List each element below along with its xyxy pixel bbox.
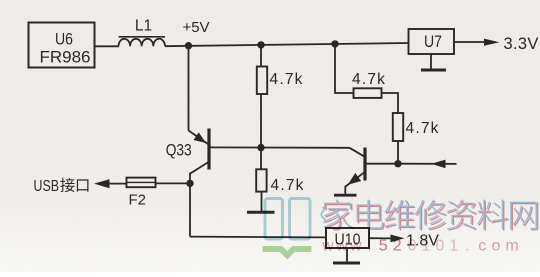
wire U10 output xyxy=(369,237,391,239)
svg-text:4.7k: 4.7k xyxy=(270,71,304,88)
junction dot base node xyxy=(257,144,264,151)
svg-text:Q33: Q33 xyxy=(166,142,192,160)
wire R1 to base node xyxy=(260,94,262,148)
ground U10 xyxy=(333,248,360,263)
wire arrow to F2 xyxy=(108,183,127,185)
wire F2 to node xyxy=(156,182,191,184)
resistor R1 4.7k xyxy=(257,67,267,95)
svg-text:.: . xyxy=(367,238,371,255)
inductor L1 xyxy=(119,37,166,47)
wire U6 to L1 xyxy=(95,45,120,47)
wire Q2 emitter to ground xyxy=(344,186,346,195)
wire Q33 emitter to +5V xyxy=(188,46,190,131)
watermark url www.520101.com xyxy=(321,238,519,255)
svg-text:0: 0 xyxy=(408,238,417,255)
svg-text:1: 1 xyxy=(449,238,458,255)
svg-text:w: w xyxy=(321,238,334,255)
resistor R3 4.7k vertical right xyxy=(393,113,403,141)
wire R4 to ground xyxy=(261,192,263,212)
transistor Q2 xyxy=(345,148,398,187)
watermark text 家电维修资料网 xyxy=(323,199,538,230)
svg-text:m: m xyxy=(505,238,518,255)
junction dot rail/R1 xyxy=(257,41,264,48)
wire from right edge with arrow xyxy=(398,160,457,169)
fuse F2 xyxy=(127,178,156,188)
arrow to 1.8V xyxy=(391,235,405,243)
watermark green ribbon xyxy=(263,249,312,255)
transistor Q33 xyxy=(189,129,210,175)
wire +5V rail xyxy=(165,43,409,46)
label USB接口 xyxy=(34,178,89,195)
wire node to R4 xyxy=(260,148,262,170)
resistor R4 4.7k lower middle xyxy=(256,169,266,191)
wire Q33 base to Q2 base xyxy=(209,146,350,148)
wire R2 to R3 xyxy=(382,93,399,113)
wire bottom rail xyxy=(190,236,327,239)
svg-text:U6: U6 xyxy=(55,30,73,49)
IC U10 xyxy=(326,228,369,249)
node +5V junction xyxy=(185,42,192,49)
wire R3 to collector node xyxy=(397,141,399,164)
svg-text:FR986: FR986 xyxy=(40,48,91,67)
watermark book logo xyxy=(265,199,310,240)
junction dot rail/R2 xyxy=(331,40,338,47)
svg-text:4.7k: 4.7k xyxy=(406,120,440,137)
svg-text:4.7k: 4.7k xyxy=(352,71,386,88)
resistor R2 4.7k horizontal xyxy=(354,88,382,98)
arrow to USB port xyxy=(94,179,110,188)
svg-text:1: 1 xyxy=(421,238,430,255)
svg-text:USB: USB xyxy=(34,178,60,195)
svg-text:c: c xyxy=(478,238,486,255)
svg-text:U7: U7 xyxy=(424,33,442,51)
wire rail to R1 xyxy=(260,45,262,67)
watermark teal squiggle xyxy=(321,207,325,223)
svg-text:5: 5 xyxy=(379,238,388,255)
svg-text:3.3V: 3.3V xyxy=(504,35,539,53)
svg-text:2: 2 xyxy=(393,238,402,255)
svg-text:4.7k: 4.7k xyxy=(271,177,305,194)
svg-text:0: 0 xyxy=(435,238,444,255)
ground U7 xyxy=(421,54,446,70)
svg-text:.: . xyxy=(465,238,469,255)
ground R4 xyxy=(247,211,275,214)
wire Q33 collector down to bottom rail xyxy=(189,173,191,237)
svg-text:o: o xyxy=(491,238,500,255)
svg-text:w: w xyxy=(349,238,362,255)
svg-text:w: w xyxy=(335,238,348,255)
svg-text:+5V: +5V xyxy=(182,19,209,36)
arrow to 3.3V xyxy=(484,39,500,46)
svg-text:F2: F2 xyxy=(129,192,147,209)
junction dot F2 node xyxy=(186,180,193,187)
IC U7 xyxy=(409,29,455,54)
IC U6 FR986 xyxy=(29,23,95,68)
svg-text:L1: L1 xyxy=(135,18,152,35)
wire rail to R2 xyxy=(335,44,354,93)
wire U7 output xyxy=(454,41,487,43)
junction dot collector node xyxy=(394,160,401,167)
ground Q2 xyxy=(334,194,357,197)
